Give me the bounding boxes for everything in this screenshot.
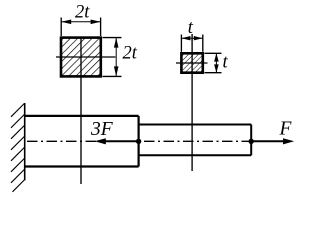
vertical centerline / section line through large square and large bar xyxy=(80,39,82,185)
force arrow F (pointing right) xyxy=(251,138,294,144)
fixed wall line xyxy=(24,103,26,180)
large cross-section square 2t x 2t xyxy=(61,38,101,77)
label 3F xyxy=(90,119,114,140)
svg-text:F: F xyxy=(279,118,293,139)
svg-text:3F: 3F xyxy=(90,119,114,140)
horizontal centerline of small square xyxy=(176,62,208,64)
horizontal centerline of large square xyxy=(56,56,115,58)
small bar segment xyxy=(139,125,252,156)
large bar segment xyxy=(25,116,139,167)
dimension 2t (right of large square) xyxy=(103,38,138,77)
svg-text:t: t xyxy=(188,18,194,38)
svg-text:2t: 2t xyxy=(75,2,90,22)
wall hatching xyxy=(11,104,24,192)
force arrow 3F (pointing left) xyxy=(95,138,139,144)
dimension t (top of small square) xyxy=(181,18,202,52)
label F xyxy=(279,118,293,139)
dash-dot centerline of bar xyxy=(27,140,251,142)
vertical centerline / section line through small square and small bar xyxy=(191,34,193,171)
junction dot at free end xyxy=(249,139,254,144)
small cross-section square t x t xyxy=(181,53,202,72)
svg-text:t: t xyxy=(223,52,229,72)
junction dot at step xyxy=(136,139,141,144)
svg-text:2t: 2t xyxy=(123,44,138,64)
dimension t (right of small square) xyxy=(205,52,229,72)
dimension 2t (top of large square) xyxy=(61,2,100,36)
